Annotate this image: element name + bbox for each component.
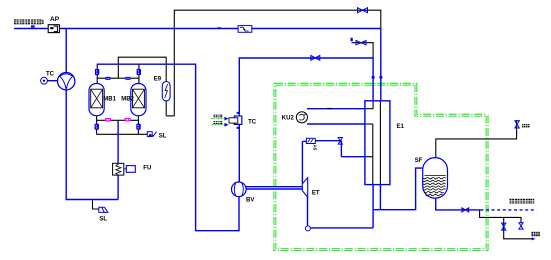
svg-text:TC: TC [46,72,55,78]
svg-text:MB2: MB2 [121,96,134,102]
svg-text:MB1: MB1 [103,96,116,102]
svg-text:BV: BV [246,197,254,203]
svg-text:KU2: KU2 [282,115,295,121]
svg-text:A5: A5 [313,145,318,151]
svg-text:E1: E1 [397,124,405,130]
svg-text:SF: SF [415,158,423,164]
svg-text:AP: AP [50,16,60,23]
svg-text:E9: E9 [154,77,162,83]
svg-text:SL: SL [159,133,167,139]
svg-text:ET: ET [312,191,320,197]
svg-text:FU: FU [143,165,151,171]
svg-text:TC: TC [248,119,257,125]
svg-text:SL: SL [99,216,107,222]
